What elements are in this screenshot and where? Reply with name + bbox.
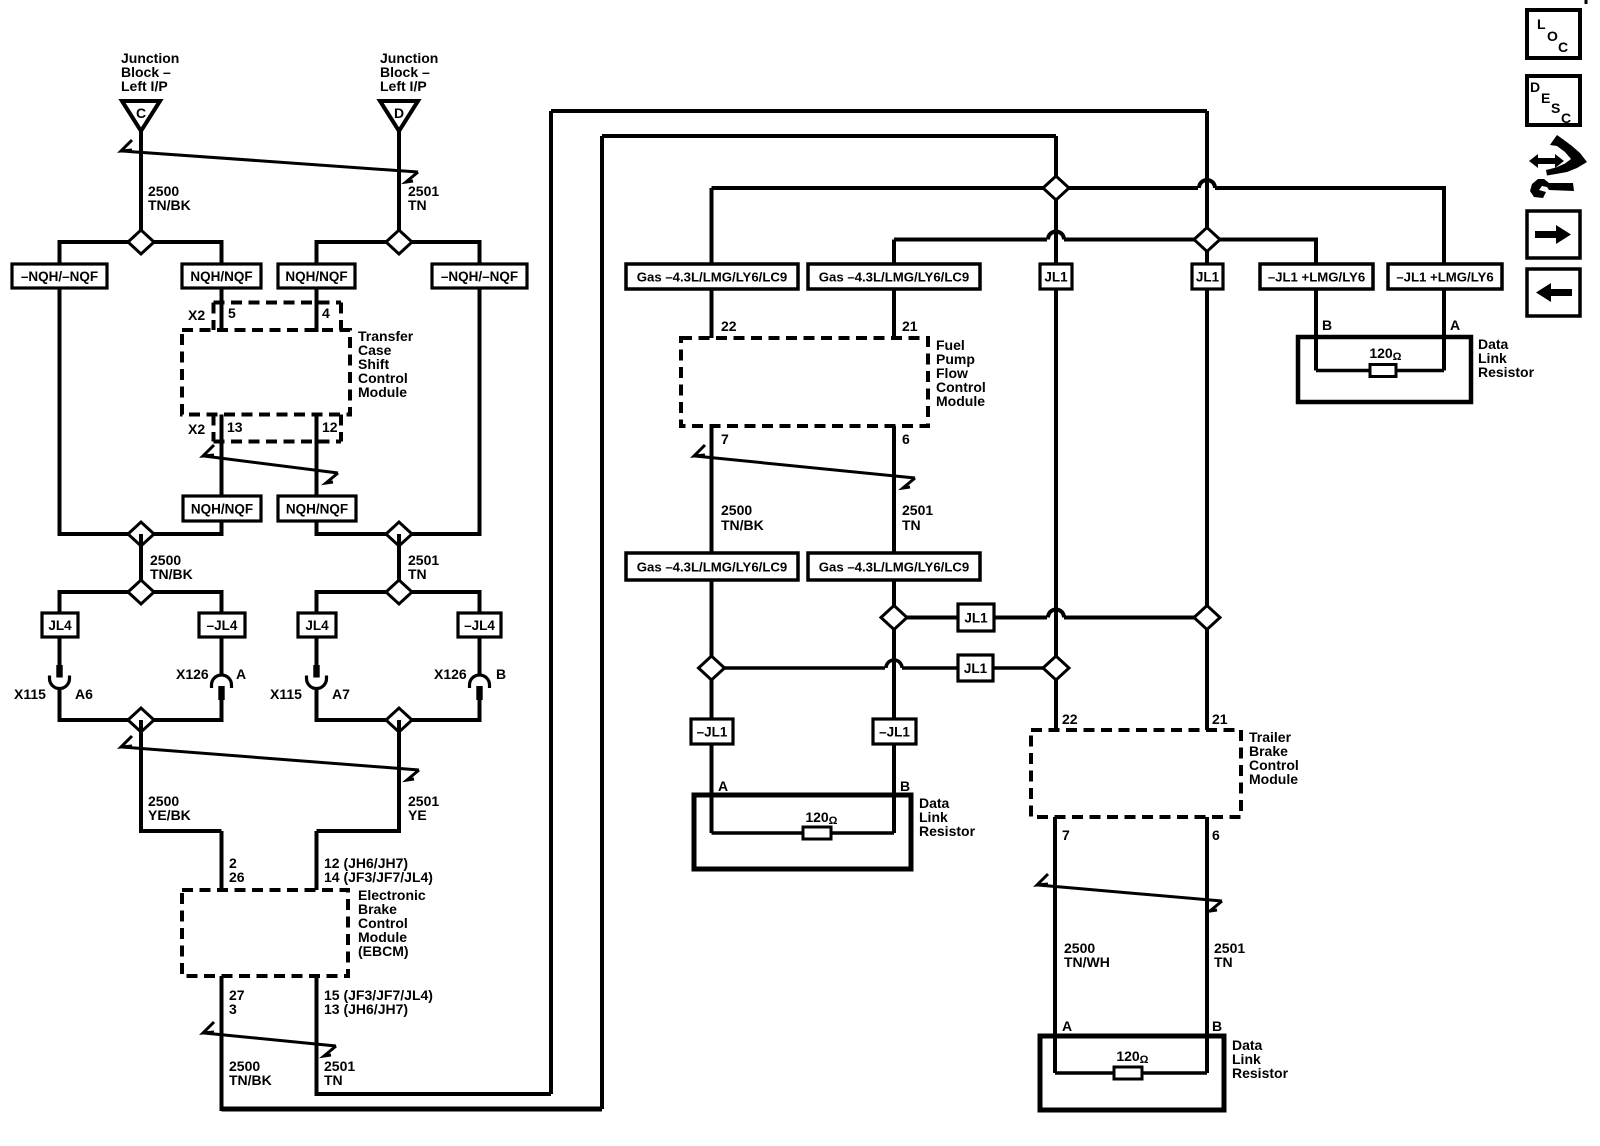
- wire box5 to y534 bus: [220, 521, 224, 536]
- wire gas col2 drop: [892, 240, 896, 265]
- wire y592 to -JL4 box (col2): [220, 590, 224, 613]
- wire gas col1 drop: [710, 188, 714, 264]
- svg-text:6: 6: [1212, 827, 1220, 843]
- wire diamond to EBCM jog (right): [397, 720, 401, 833]
- svg-text:X2: X2: [188, 421, 205, 437]
- svg-text:120: 120: [805, 809, 829, 825]
- fuel pump flow control module U3 (dashed box): [681, 338, 928, 426]
- wire EBCM pin 15 down: [315, 976, 319, 1096]
- svg-text:NQH/NQF: NQH/NQF: [286, 502, 348, 517]
- svg-text:4: 4: [322, 305, 330, 321]
- svg-text:C: C: [1561, 110, 1571, 126]
- svg-text:NQH/NQF: NQH/NQF: [190, 269, 252, 284]
- data link resistor R1 housing: [694, 795, 911, 869]
- wire TBCM pin 6 down: [1205, 817, 1209, 1073]
- svg-text:–NQH/–NQF: –NQH/–NQF: [441, 269, 518, 284]
- option label Gas -4.3L... (col1 bottom): [626, 553, 798, 580]
- junction diamond D split: [386, 230, 412, 254]
- transfer case shift control module U1 (dashed box): [182, 330, 350, 415]
- svg-text:14 (JF3/JF7/JL4): 14 (JF3/JF7/JL4): [324, 869, 433, 885]
- svg-text:–JL1: –JL1: [879, 725, 910, 740]
- wire diamond to EBCM jog (left): [139, 720, 143, 833]
- option label -JL1 (col2): [873, 719, 916, 744]
- svg-text:2501: 2501: [902, 502, 933, 518]
- hop y239.5 over bus1: [1048, 232, 1064, 240]
- wire gas box2 to FPFCM pin 21: [892, 289, 896, 338]
- option label -JL1 +LMG/LY6 (B): [1260, 264, 1373, 289]
- inline connector X115 pin A6: [56, 665, 62, 678]
- next page button: [1527, 211, 1580, 258]
- svg-text:Module: Module: [1249, 771, 1298, 787]
- riser 2501 to top: [549, 111, 553, 1094]
- svg-text:A: A: [1450, 317, 1460, 333]
- svg-text:Gas –4.3L/LMG/LY6/LC9: Gas –4.3L/LMG/LY6/LC9: [819, 560, 970, 575]
- junction diamond row1 col2: [881, 606, 907, 630]
- page edge tick: [1585, 0, 1588, 4]
- option label JL1 (row1): [958, 604, 994, 631]
- wire -JL1+LMG (B) to resistor: [1314, 289, 1318, 371]
- svg-text:X126: X126: [434, 666, 467, 682]
- svg-text:120: 120: [1116, 1048, 1140, 1064]
- option label JL1 (row2): [958, 655, 993, 681]
- TCSCM X2 connector strip (top): [212, 303, 216, 331]
- svg-text:120: 120: [1369, 345, 1393, 361]
- wire bus y720 left: [60, 718, 222, 722]
- row1 wire (col2 to bus2): [894, 616, 1047, 620]
- svg-text:21: 21: [902, 318, 918, 334]
- svg-text:L: L: [1537, 16, 1546, 32]
- twisted pair arrow (C/D): [121, 140, 418, 182]
- wire y592 to JL4 box (col3): [315, 590, 319, 613]
- junction diamond y188 bus1: [1043, 176, 1069, 200]
- svg-text:22: 22: [1062, 711, 1078, 727]
- svg-text:JL1: JL1: [964, 661, 988, 676]
- wire y592 to JL4 box (colA): [58, 590, 62, 613]
- svg-text:TN: TN: [408, 197, 427, 213]
- svg-text:–JL1 +LMG/LY6: –JL1 +LMG/LY6: [1268, 270, 1365, 285]
- hop row2 over col2: [886, 660, 902, 668]
- inline connector X126 pin A: [212, 675, 232, 688]
- twisted pair arrow (FPFCM outputs): [694, 445, 915, 488]
- svg-text:D: D: [1530, 79, 1540, 95]
- wire box4 down right col: [478, 288, 482, 536]
- svg-text:–JL1 +LMG/LY6: –JL1 +LMG/LY6: [1396, 270, 1493, 285]
- junction diamond y592 left: [128, 580, 154, 604]
- wire connector to y720 bus (col2): [220, 699, 224, 722]
- resistor R1 element: [712, 831, 804, 835]
- svg-text:3: 3: [229, 1001, 237, 1017]
- wire gas box1 to FPFCM pin 22: [710, 289, 714, 338]
- diagram icon (connector/tool): [1529, 135, 1587, 198]
- svg-text:O: O: [1547, 28, 1558, 44]
- wire -JL4 to connector X126-A: [220, 637, 224, 676]
- twisted pair arrow (EBCM outputs): [203, 1022, 336, 1056]
- twisted pair arrow (TBCM outputs): [1037, 874, 1222, 911]
- inline connector X115 pin A7: [313, 665, 319, 678]
- electronic brake control module U2 (dashed box): [182, 890, 348, 976]
- svg-text:Ω: Ω: [1393, 351, 1402, 363]
- junction diamond y534 right: [386, 522, 412, 546]
- wire D down from triangle: [397, 131, 401, 242]
- svg-text:22: 22: [721, 318, 737, 334]
- option label -JL4 (col2): [199, 613, 245, 637]
- svg-text:Left I/P: Left I/P: [121, 78, 168, 94]
- svg-text:–NQH/–NQF: –NQH/–NQF: [21, 269, 98, 284]
- twisted pair arrow (TCSCM outputs): [203, 445, 338, 483]
- DESC button: [1527, 76, 1580, 125]
- option label NQH/NQF (col3): [278, 264, 355, 288]
- option label -JL4 (col4): [458, 613, 501, 637]
- svg-text:26: 26: [229, 869, 245, 885]
- svg-text:Ω: Ω: [1140, 1054, 1149, 1066]
- svg-text:TN: TN: [902, 517, 921, 533]
- svg-text:21: 21: [1212, 711, 1228, 727]
- wire JL4 to connector X115-A6: [58, 637, 62, 666]
- svg-text:D: D: [394, 105, 404, 121]
- svg-text:Ω: Ω: [829, 815, 838, 827]
- svg-text:(EBCM): (EBCM): [358, 943, 409, 959]
- junction block connector D (triangle): [380, 101, 418, 131]
- option label NQH/NQF (row2 col3): [278, 496, 356, 521]
- wire C down from triangle: [139, 131, 143, 242]
- wire -JL1 col2 to resistor B: [892, 744, 896, 833]
- svg-text:–JL4: –JL4: [207, 618, 238, 633]
- svg-text:Resistor: Resistor: [1478, 364, 1535, 380]
- svg-text:JL1: JL1: [1044, 270, 1068, 285]
- svg-text:YE/BK: YE/BK: [148, 807, 191, 823]
- svg-text:TN/BK: TN/BK: [148, 197, 191, 213]
- svg-text:A7: A7: [332, 686, 350, 702]
- junction diamond y720 left: [128, 708, 154, 732]
- riser 2500 to top: [600, 136, 604, 1109]
- wire y188 run (gas col1 to resistor A): [712, 186, 1199, 190]
- svg-text:12: 12: [322, 419, 338, 435]
- option label JL1 (bus1): [1040, 264, 1072, 289]
- data link resistor R3 housing: [1040, 1036, 1224, 1110]
- svg-text:B: B: [1322, 317, 1332, 333]
- junction diamond row2 col1: [699, 656, 725, 680]
- wire y239.5 corner down to -JL1+LMG/LY6 (B): [1314, 238, 1318, 265]
- wire to -NQH/-NQF box1: [58, 240, 62, 264]
- svg-text:NQH/NQF: NQH/NQF: [191, 502, 253, 517]
- option label -JL1 +LMG/LY6 (A): [1388, 264, 1502, 289]
- wire between diamonds right: [397, 534, 401, 592]
- LOC button: [1527, 10, 1580, 58]
- svg-text:JL4: JL4: [48, 618, 72, 633]
- row2 wire (col1 to bus1): [712, 666, 886, 670]
- resistor R3 element: [1055, 1071, 1114, 1075]
- svg-text:A: A: [1062, 1018, 1072, 1034]
- junction diamond y720 right: [386, 708, 412, 732]
- wire col1 to -JL1 box: [710, 681, 714, 719]
- wire connector to y720 bus (col4): [478, 699, 482, 722]
- svg-text:A: A: [718, 778, 728, 794]
- svg-text:13 (JH6/JH7): 13 (JH6/JH7): [324, 1001, 408, 1017]
- wire connector to y720 bus (colA): [58, 688, 62, 722]
- junction diamond y592 right: [386, 580, 412, 604]
- wire between diamonds left: [139, 534, 143, 592]
- wire -JL1+LMG (A) to resistor: [1442, 289, 1446, 371]
- trailer brake control module U4 (dashed box): [1031, 730, 1241, 817]
- svg-text:Gas –4.3L/LMG/LY6/LC9: Gas –4.3L/LMG/LY6/LC9: [637, 270, 788, 285]
- svg-text:Gas –4.3L/LMG/LY6/LC9: Gas –4.3L/LMG/LY6/LC9: [637, 560, 788, 575]
- option label Gas -4.3L... (col1 top): [626, 264, 798, 289]
- svg-text:B: B: [900, 778, 910, 794]
- junction diamond y239.5 bus2: [1194, 228, 1220, 252]
- svg-text:X2: X2: [188, 307, 205, 323]
- svg-text:TN/WH: TN/WH: [1064, 954, 1110, 970]
- top wire 2501 (y111): [551, 109, 1207, 113]
- option label -NQH/-NQF (col4): [432, 264, 527, 288]
- hop y188 over bus2: [1199, 180, 1215, 188]
- hop row1 over bus1: [1048, 610, 1064, 618]
- svg-text:C: C: [1558, 39, 1568, 55]
- wire TBCM pin 7 down: [1053, 817, 1057, 1073]
- bus JL1-2 vertical (x1207): [1205, 111, 1209, 730]
- wire FPFCM pin 6 down: [892, 426, 896, 553]
- wire EBCM pin 27 down: [220, 976, 224, 1111]
- option label JL4 (col3): [298, 613, 336, 637]
- wire box1 down left col: [58, 288, 62, 536]
- svg-text:6: 6: [902, 431, 910, 447]
- junction diamond y534 left: [128, 522, 154, 546]
- svg-text:2500: 2500: [721, 502, 752, 518]
- prev page button: [1527, 269, 1580, 316]
- svg-text:TN: TN: [408, 566, 427, 582]
- wire box3 to TCSCM pin 4: [315, 288, 319, 332]
- svg-text:TN/BK: TN/BK: [721, 517, 764, 533]
- svg-text:Left I/P: Left I/P: [380, 78, 427, 94]
- wire y592 to -JL4 box (col4): [478, 590, 482, 613]
- svg-text:A: A: [236, 666, 246, 682]
- wire bus y592 left: [60, 590, 222, 594]
- wire gas col1 down to diamond: [710, 580, 714, 721]
- svg-text:NQH/NQF: NQH/NQF: [285, 269, 347, 284]
- svg-text:7: 7: [721, 431, 729, 447]
- option label JL4 (colA): [42, 613, 78, 637]
- svg-text:B: B: [1212, 1018, 1222, 1034]
- twisted pair arrow (to EBCM): [121, 736, 419, 780]
- svg-text:X115: X115: [270, 686, 302, 702]
- wire -JL1 col1 to resistor A: [710, 744, 714, 833]
- wire -JL4 to connector X126-B: [478, 637, 482, 676]
- wire bus y592 right: [317, 590, 480, 594]
- svg-text:Resistor: Resistor: [919, 823, 976, 839]
- svg-text:TN/BK: TN/BK: [229, 1072, 272, 1088]
- resistor R2 element: [1316, 369, 1370, 373]
- svg-text:X115: X115: [14, 686, 46, 702]
- wire to -NQH/-NQF box4: [478, 240, 482, 264]
- svg-text:A6: A6: [75, 686, 93, 702]
- svg-text:Resistor: Resistor: [1232, 1065, 1289, 1081]
- bus JL1-1 vertical (x1056): [1054, 136, 1058, 730]
- wire box2 to TCSCM pin 5: [220, 288, 224, 332]
- TCSCM X2 connector strip (bottom): [212, 415, 216, 442]
- wire gas col2 down to diamond: [892, 580, 896, 721]
- svg-text:S: S: [1551, 100, 1560, 116]
- wire JL4 to connector X115-A7: [315, 637, 319, 666]
- svg-text:TN: TN: [324, 1072, 343, 1088]
- svg-text:5: 5: [228, 305, 236, 321]
- option label -JL1 (col1): [691, 719, 733, 744]
- wire bus y534 left: [60, 532, 222, 536]
- wire 2501 bottom run to riser: [317, 1092, 552, 1096]
- svg-text:JL1: JL1: [964, 611, 988, 626]
- wire bus y534 right: [317, 532, 480, 536]
- svg-text:JL4: JL4: [305, 618, 329, 633]
- top wire 2500 (y136): [602, 134, 1056, 138]
- svg-text:TN/BK: TN/BK: [150, 566, 193, 582]
- junction block connector C (triangle): [122, 101, 160, 131]
- wire 2500 bottom run to riser: [222, 1107, 603, 1112]
- svg-text:X126: X126: [176, 666, 209, 682]
- option label JL1 (bus2): [1192, 264, 1223, 289]
- junction diamond C split: [128, 230, 154, 254]
- wire bus y720 right: [317, 718, 480, 722]
- svg-text:JL1: JL1: [1196, 270, 1220, 285]
- wire FPFCM pin 7 down: [710, 426, 714, 553]
- wire split right (y242): [317, 240, 480, 244]
- wire y188 corner down to -JL1+LMG/LY6 (A): [1442, 186, 1446, 264]
- wire connector to y720 bus (col3): [315, 688, 319, 722]
- wire box6 to y534 bus: [315, 521, 319, 536]
- wire TCSCM pin 12 down: [315, 415, 319, 497]
- svg-text:Module: Module: [358, 384, 407, 400]
- wire split left (y242): [60, 240, 222, 244]
- wire TCSCM pin 13 down: [220, 415, 224, 497]
- junction diamond row2 bus1: [1043, 656, 1069, 680]
- svg-text:–JL1: –JL1: [697, 725, 728, 740]
- svg-text:TN: TN: [1214, 954, 1233, 970]
- svg-text:Module: Module: [936, 393, 985, 409]
- svg-text:–JL4: –JL4: [464, 618, 495, 633]
- svg-text:YE: YE: [408, 807, 427, 823]
- inline connector X126 pin B: [470, 675, 490, 688]
- svg-text:E: E: [1541, 90, 1550, 106]
- data link resistor R2 housing: [1298, 337, 1471, 402]
- wire col2 to -JL1 box: [892, 631, 896, 719]
- option label NQH/NQF (row2 col2): [183, 496, 261, 521]
- option label -NQH/-NQF (left): [12, 264, 107, 288]
- svg-text:C: C: [136, 105, 146, 121]
- svg-text:Gas –4.3L/LMG/LY6/LC9: Gas –4.3L/LMG/LY6/LC9: [819, 270, 970, 285]
- option label NQH/NQF (col2): [182, 264, 261, 288]
- wire to NQH/NQF box3: [315, 240, 319, 264]
- svg-text:B: B: [496, 666, 506, 682]
- svg-text:13: 13: [227, 419, 243, 435]
- junction diamond row1 bus2: [1194, 606, 1220, 630]
- wire y239.5 run (gas col2 to resistor B): [894, 238, 1047, 242]
- svg-text:7: 7: [1062, 827, 1070, 843]
- option label Gas -4.3L... (col2 top): [808, 264, 980, 289]
- wire to NQH/NQF box2: [220, 240, 224, 264]
- option label Gas -4.3L... (col2 bottom): [808, 553, 980, 580]
